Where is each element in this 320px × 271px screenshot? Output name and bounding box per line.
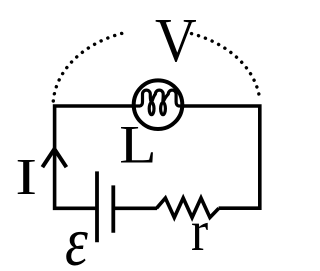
current arrowhead on left wire [44,149,66,166]
svg-text:r: r [191,199,208,263]
resistor r zigzag [157,198,219,218]
svg-text:L: L [119,116,156,175]
battery EMF short plate [111,185,115,232]
voltmeter dotted arc right segment [192,34,260,100]
voltmeter dotted arc left segment [53,33,123,101]
svg-text:V: V [155,6,197,76]
svg-text:ε: ε [65,203,89,271]
wire: battery to resistor [114,207,158,211]
lamp circle [134,80,183,129]
lamp filament loops [134,90,184,115]
wire: main loop top/left/right + bottom stubs [55,106,260,208]
battery EMF long plate [95,171,99,242]
svg-text:I: I [15,148,37,205]
